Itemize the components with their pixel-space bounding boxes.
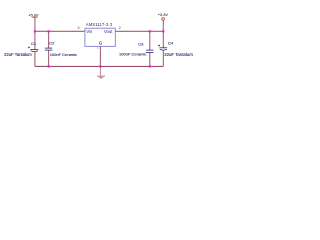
wire from U1 Vout pin 2 to +3.3V node (115, 30, 163, 32)
node junction C3 bottom on ground rail (149, 65, 151, 67)
power port +3.3V (158, 12, 169, 20)
C3 top plate (146, 49, 153, 51)
svg-text:C1: C1 (31, 41, 37, 46)
wire from top wire down to C3 top plate (149, 31, 151, 50)
capacitor C1 22uF Tantalum (polarized) (4, 31, 38, 66)
svg-text:3: 3 (77, 25, 79, 30)
svg-text:2: 2 (119, 25, 121, 30)
C2 bottom plate (45, 49, 52, 51)
C4 top plate (160, 47, 168, 49)
svg-text:Vin: Vin (86, 29, 93, 34)
node A junction (+5.0V / C1 tap) (34, 30, 36, 32)
node junction GND pin on ground rail (99, 65, 101, 67)
wire C4 bottom plate to ground rail (162, 50, 164, 66)
wire from +5.0V node to U1 Vin pin 3 (35, 30, 85, 32)
capacitor C3 100nF Ceramic (119, 31, 153, 66)
node junction C2 bottom on ground rail (48, 65, 50, 67)
svg-text:100nF Ceramic: 100nF Ceramic (50, 52, 77, 57)
C4 curved bottom plate (160, 48, 167, 51)
wire from top wire down to C2 top plate (48, 31, 50, 48)
svg-text:C2: C2 (49, 40, 55, 45)
wire C2 bottom plate to ground rail (48, 50, 50, 66)
regulator U1 AMS1117-3.3 body (85, 28, 115, 46)
wire from +3.3V circle down to node B (162, 20, 164, 31)
svg-text:Vout: Vout (104, 29, 113, 34)
capacitor C4 22uF Tantalum (polarized) (158, 31, 193, 66)
svg-text:C3: C3 (138, 41, 144, 46)
svg-text:22uF Tantalum: 22uF Tantalum (4, 52, 32, 57)
C4 plus polarity mark (158, 45, 160, 47)
ground bar 2 (99, 76, 103, 78)
ground bar 3 (100, 77, 102, 79)
C2 top plate (45, 47, 52, 49)
svg-text:AMS1117-3.3: AMS1117-3.3 (86, 22, 113, 27)
wire from +5.0V bar down to node A (34, 17, 36, 31)
svg-text:100nF Ceramic: 100nF Ceramic (119, 52, 146, 57)
wire node A down to C1 top plate (34, 31, 36, 49)
C1 plus polarity mark (28, 46, 30, 48)
wire from U1 GND pin 1 down to ground rail (99, 46, 101, 66)
power port +5.0V (28, 12, 39, 17)
capacitor C2 100nF Ceramic (45, 31, 77, 66)
wire node B down to C4 top plate (162, 31, 164, 47)
svg-text:G: G (99, 41, 102, 46)
ground bar 1 (97, 75, 105, 77)
wire C3 bottom plate to ground rail (149, 53, 151, 67)
node junction C2 top tap (48, 30, 50, 32)
ground (97, 66, 105, 78)
C3 bottom plate (146, 51, 153, 53)
wire C1 bottom plate to ground rail (34, 52, 36, 67)
C1 top plate (30, 48, 38, 50)
C1 curved bottom plate (31, 50, 39, 53)
svg-text:C4: C4 (168, 41, 174, 46)
svg-text:+3.3V: +3.3V (158, 12, 169, 17)
svg-text:22uF Tantalum: 22uF Tantalum (164, 52, 193, 57)
node B junction (+3.3V / C4 tap) (162, 30, 164, 32)
ground stem (99, 66, 101, 75)
svg-text:+5.0V: +5.0V (28, 12, 39, 17)
wire ground rail (35, 65, 163, 67)
node junction C3 top tap (149, 30, 151, 32)
